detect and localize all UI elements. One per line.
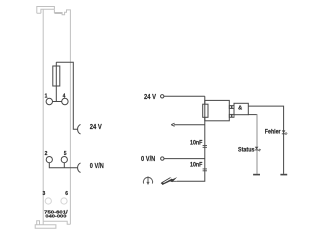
terminal circle 0V/N (161, 157, 164, 160)
module top-left hook (37, 7, 55, 14)
wire contact5 down (63, 163, 65, 168)
connector tab lower (229, 114, 231, 117)
svg-text:6: 6 (65, 191, 68, 197)
contact 5 (61, 157, 67, 163)
ground bar Fehler (280, 174, 287, 176)
svg-text:10nF: 10nF (190, 163, 203, 169)
contact 3 circle (unused) (45, 198, 51, 204)
terminal clamp arc 0V (78, 163, 81, 173)
contact 4 (62, 98, 68, 104)
arrowhead pointing left (171, 123, 174, 126)
fuse F1 (53, 66, 60, 86)
functional earth symbol (143, 176, 152, 185)
module bottom edge (43, 221, 70, 224)
fuse F2 on bus (203, 104, 208, 117)
svg-text:4: 4 (63, 93, 66, 99)
svg-text:3: 3 (43, 191, 46, 197)
electronics box (205, 100, 230, 120)
module left wall (42, 9, 44, 224)
capacitor C2 plates (203, 169, 207, 171)
svg-text:24 V: 24 V (90, 124, 102, 131)
wire with bus arrow (internal supply tap) (174, 124, 205, 126)
wire contact1-contact4 (53, 101, 62, 103)
svg-text:0 V/N: 0 V/N (141, 156, 155, 163)
foot hook notch (37, 221, 40, 225)
LED Status (255, 147, 261, 152)
wire status branch (248, 114, 257, 116)
LED Fehler (282, 130, 288, 134)
contact 1 (46, 98, 52, 104)
svg-text:Status: Status (238, 146, 255, 153)
main vertical bus and bottom run (177, 96, 205, 181)
DIN rail contact symbol (161, 177, 178, 185)
svg-text:Fehler: Fehler (265, 129, 281, 136)
svg-text:5: 5 (64, 151, 67, 157)
connector tab upper (229, 106, 231, 109)
svg-text:0 V/N: 0 V/N (90, 163, 104, 170)
module top-right latch profile (54, 9, 70, 224)
wire contact2 down (49, 163, 77, 168)
contact 6 circle (unused) (61, 198, 67, 204)
svg-text:10nF: 10nF (190, 140, 203, 146)
wire & output to Fehler branch (248, 106, 283, 174)
wire fuse stub below (55, 62, 57, 101)
wire fuse top to 24V terminal (56, 62, 77, 129)
capacitor C1 plates (203, 145, 207, 147)
wire 0V/N to bus (164, 158, 205, 160)
ground bar Status (253, 174, 260, 176)
AND gate box U1 (234, 103, 248, 114)
terminal clamp arc 24V (78, 124, 81, 134)
terminal circle 24V (161, 95, 164, 98)
svg-text:1: 1 (45, 93, 48, 99)
svg-text:24 V: 24 V (144, 94, 156, 101)
contact 2 (46, 157, 52, 163)
wire 24V to bus (164, 95, 205, 97)
svg-text:2: 2 (45, 151, 48, 157)
latch shelf lower line (54, 13, 62, 15)
module bottom foot (35, 225, 56, 229)
svg-text:&: & (238, 106, 242, 112)
svg-text:040-000: 040-000 (45, 214, 67, 219)
